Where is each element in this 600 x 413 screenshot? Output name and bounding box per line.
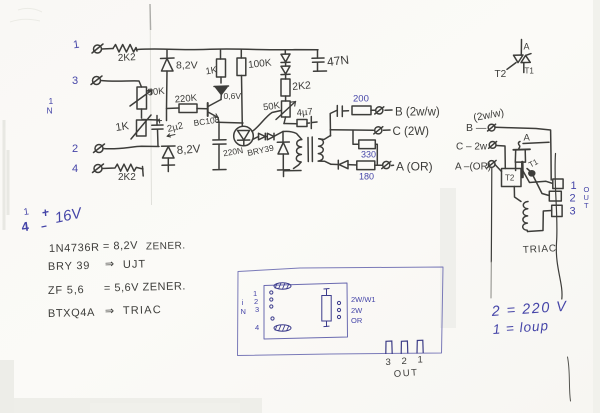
svg-text:1: 1	[571, 180, 577, 192]
wire input3 to pot	[101, 81, 142, 88]
transistor Q1 BC108	[208, 100, 221, 118]
svg-text:8,2V: 8,2V	[176, 60, 198, 72]
wire gate to out2	[534, 177, 550, 196]
transformer core	[308, 137, 312, 162]
zener D3 0,6V	[214, 86, 229, 100]
resistor R3 1K	[217, 50, 226, 83]
label IN	[47, 96, 54, 116]
connector out3	[552, 205, 562, 216]
svg-text:T: T	[584, 201, 589, 210]
note ZF 5,6 = 5,6V ZENER	[48, 280, 186, 297]
resistor R5 100K	[237, 50, 246, 126]
label C1 plus	[158, 119, 162, 123]
stray wire right	[555, 154, 562, 300]
resistor R2 2K2 (input 4)	[102, 164, 143, 176]
terminal A out	[487, 160, 496, 167]
svg-text:1K: 1K	[115, 120, 131, 134]
label OUT vertical	[584, 185, 590, 210]
svg-text:2: 2	[402, 356, 407, 367]
note BTXQ4A = TRIAC	[48, 304, 162, 320]
svg-text:A –(OR): A –(OR)	[455, 162, 491, 173]
resistor R4 220K	[167, 104, 208, 113]
resistor R6 2K2	[281, 79, 290, 101]
top bus wire	[137, 48, 318, 51]
resistor R8 330	[353, 130, 377, 164]
svg-text:T2: T2	[495, 69, 507, 80]
label C1 2u2	[166, 120, 184, 137]
svg-text:3: 3	[72, 75, 78, 87]
diode D7	[281, 66, 290, 79]
component on board	[322, 289, 331, 328]
annotation 1/4	[20, 206, 30, 234]
diode D6 (chain top)	[281, 50, 290, 66]
terminal 4	[93, 164, 104, 173]
wire input2 to node	[103, 146, 159, 149]
pcb pin labels	[241, 289, 260, 332]
wire T1 to out1	[523, 171, 553, 184]
wire input1 to R1	[102, 48, 114, 51]
transformer T1 primary	[283, 131, 302, 168]
svg-text:C (2W): C (2W)	[393, 126, 430, 138]
svg-text:200: 200	[353, 94, 369, 105]
annotation plus minus	[42, 210, 49, 228]
svg-text:T2: T2	[505, 174, 515, 183]
svg-text:ZF 5,6: ZF 5,6	[48, 284, 85, 297]
svg-text:C – 2w: C – 2w	[456, 142, 488, 153]
resistor R7 200	[352, 106, 375, 115]
svg-text:1: 1	[49, 96, 54, 106]
svg-text:220K: 220K	[174, 93, 198, 106]
wire pot to LDR	[141, 109, 143, 118]
svg-text:1: 1	[418, 355, 423, 366]
wire secondary to cap C5	[330, 111, 336, 137]
svg-text:1N4736R: 1N4736R	[49, 242, 100, 255]
svg-text:BRY 39: BRY 39	[48, 260, 91, 273]
diode D9	[331, 160, 357, 169]
terminal B out	[488, 124, 496, 131]
svg-text:2: 2	[570, 193, 576, 205]
pcb labels 2W/W1 2W OR	[351, 295, 376, 325]
capacitor C3 4u7	[284, 117, 317, 129]
svg-text:B —: B —	[466, 122, 487, 134]
terminal B	[375, 107, 392, 114]
note 1N4736R = 8,2V ZENER	[49, 238, 186, 255]
pads right	[337, 301, 340, 318]
zener D8	[277, 132, 289, 171]
wire package A to B vertical	[523, 142, 549, 143]
wire gate to pot	[252, 111, 281, 132]
wire C row	[330, 129, 373, 132]
zener D2 8,2V	[162, 146, 176, 172]
bottom bus wire	[284, 170, 302, 177]
capacitor C5	[337, 106, 348, 117]
potentiometer P2 50K	[276, 101, 296, 124]
svg-text:ZENER.: ZENER.	[146, 240, 186, 252]
svg-text:2K2: 2K2	[118, 52, 137, 64]
svg-text:50K: 50K	[147, 86, 166, 99]
wire A to T2 box	[495, 165, 502, 172]
svg-text:180: 180	[359, 172, 374, 182]
triac symbol	[507, 54, 531, 73]
zener D1 8,2V	[161, 50, 175, 121]
note BRY39 = UJT	[48, 257, 146, 273]
svg-text:3: 3	[255, 305, 259, 314]
svg-text:OUT: OUT	[393, 367, 419, 380]
svg-text:A: A	[524, 42, 530, 52]
terminal 2	[94, 144, 105, 153]
svg-text:0,6V: 0,6V	[224, 91, 242, 101]
pcb sketch	[238, 267, 444, 356]
svg-text:= 5,6V ZENER.: = 5,6V ZENER.	[104, 280, 186, 294]
gate dot	[527, 169, 535, 176]
diode D5	[265, 132, 283, 140]
svg-text:N: N	[241, 307, 246, 316]
transformer secondary	[318, 136, 331, 165]
wire T2 to coil	[514, 187, 521, 202]
wire emitter node	[217, 118, 243, 140]
wire coil to out3	[528, 211, 552, 232]
potentiometer P1 50K	[130, 87, 152, 109]
connector oval top	[274, 283, 291, 289]
capacitor C1 2u2	[152, 116, 163, 147]
output tabs	[386, 340, 423, 354]
terminal C	[374, 127, 390, 134]
svg-text:TRIAC: TRIAC	[123, 304, 162, 317]
svg-text:2K2: 2K2	[118, 172, 136, 183]
diode D4	[253, 133, 266, 140]
wire C to T2 box	[497, 146, 506, 169]
resistor R9 180	[357, 161, 382, 170]
pads left	[270, 291, 274, 320]
triac package Q2	[513, 142, 530, 178]
terminal 3	[91, 76, 102, 85]
svg-text:2: 2	[72, 143, 78, 155]
resistor R1 2K2	[113, 45, 137, 53]
svg-text:3: 3	[570, 206, 576, 218]
labels tabs 3 2 1	[386, 355, 423, 369]
svg-text:⇒: ⇒	[105, 258, 115, 270]
terminal 1	[92, 44, 103, 53]
svg-text:= 8,2V: = 8,2V	[103, 240, 139, 253]
connector out1	[553, 179, 563, 189]
svg-text:2W/W1: 2W/W1	[351, 295, 376, 304]
svg-text:8,2V: 8,2V	[176, 143, 201, 157]
svg-text:4µ7: 4µ7	[296, 106, 313, 119]
svg-text:N: N	[47, 106, 53, 116]
connector out2	[549, 191, 561, 201]
svg-text:3: 3	[386, 357, 391, 368]
svg-text:OR: OR	[351, 316, 363, 325]
svg-text:330: 330	[361, 150, 376, 160]
capacitor C4 47N	[312, 50, 327, 72]
svg-text:T1: T1	[525, 67, 535, 76]
resistor 1K (slashed)	[131, 115, 151, 139]
connector oval bottom	[274, 325, 291, 331]
terminal C out	[489, 142, 497, 149]
svg-text:4: 4	[72, 163, 78, 175]
svg-text:B (2w/w): B (2w/w)	[395, 107, 440, 119]
pcb outer outline	[238, 267, 444, 356]
wire junction to cap 2u2	[142, 119, 159, 122]
svg-text:BTXQ4A: BTXQ4A	[48, 307, 95, 320]
terminal A	[382, 161, 394, 168]
svg-text:47N: 47N	[326, 53, 349, 69]
svg-text:TRIAC: TRIAC	[523, 243, 558, 256]
triac symbol anode wire	[520, 40, 522, 56]
svg-text:2W: 2W	[351, 306, 363, 315]
svg-text:4: 4	[255, 323, 259, 332]
svg-text:UJT: UJT	[123, 258, 146, 271]
svg-text:⇒: ⇒	[105, 305, 115, 317]
capacitor C2 220N	[213, 140, 226, 170]
wire A terminal drop	[490, 168, 493, 263]
svg-text:2K2: 2K2	[292, 79, 312, 93]
svg-text:A (OR): A (OR)	[396, 160, 433, 174]
pcb inner board	[264, 283, 348, 339]
load coil L1	[523, 202, 528, 232]
wire B to out1	[495, 127, 551, 180]
T2 box	[502, 169, 522, 187]
svg-text:A: A	[524, 133, 531, 144]
UJT U1 BRY39	[234, 126, 254, 146]
